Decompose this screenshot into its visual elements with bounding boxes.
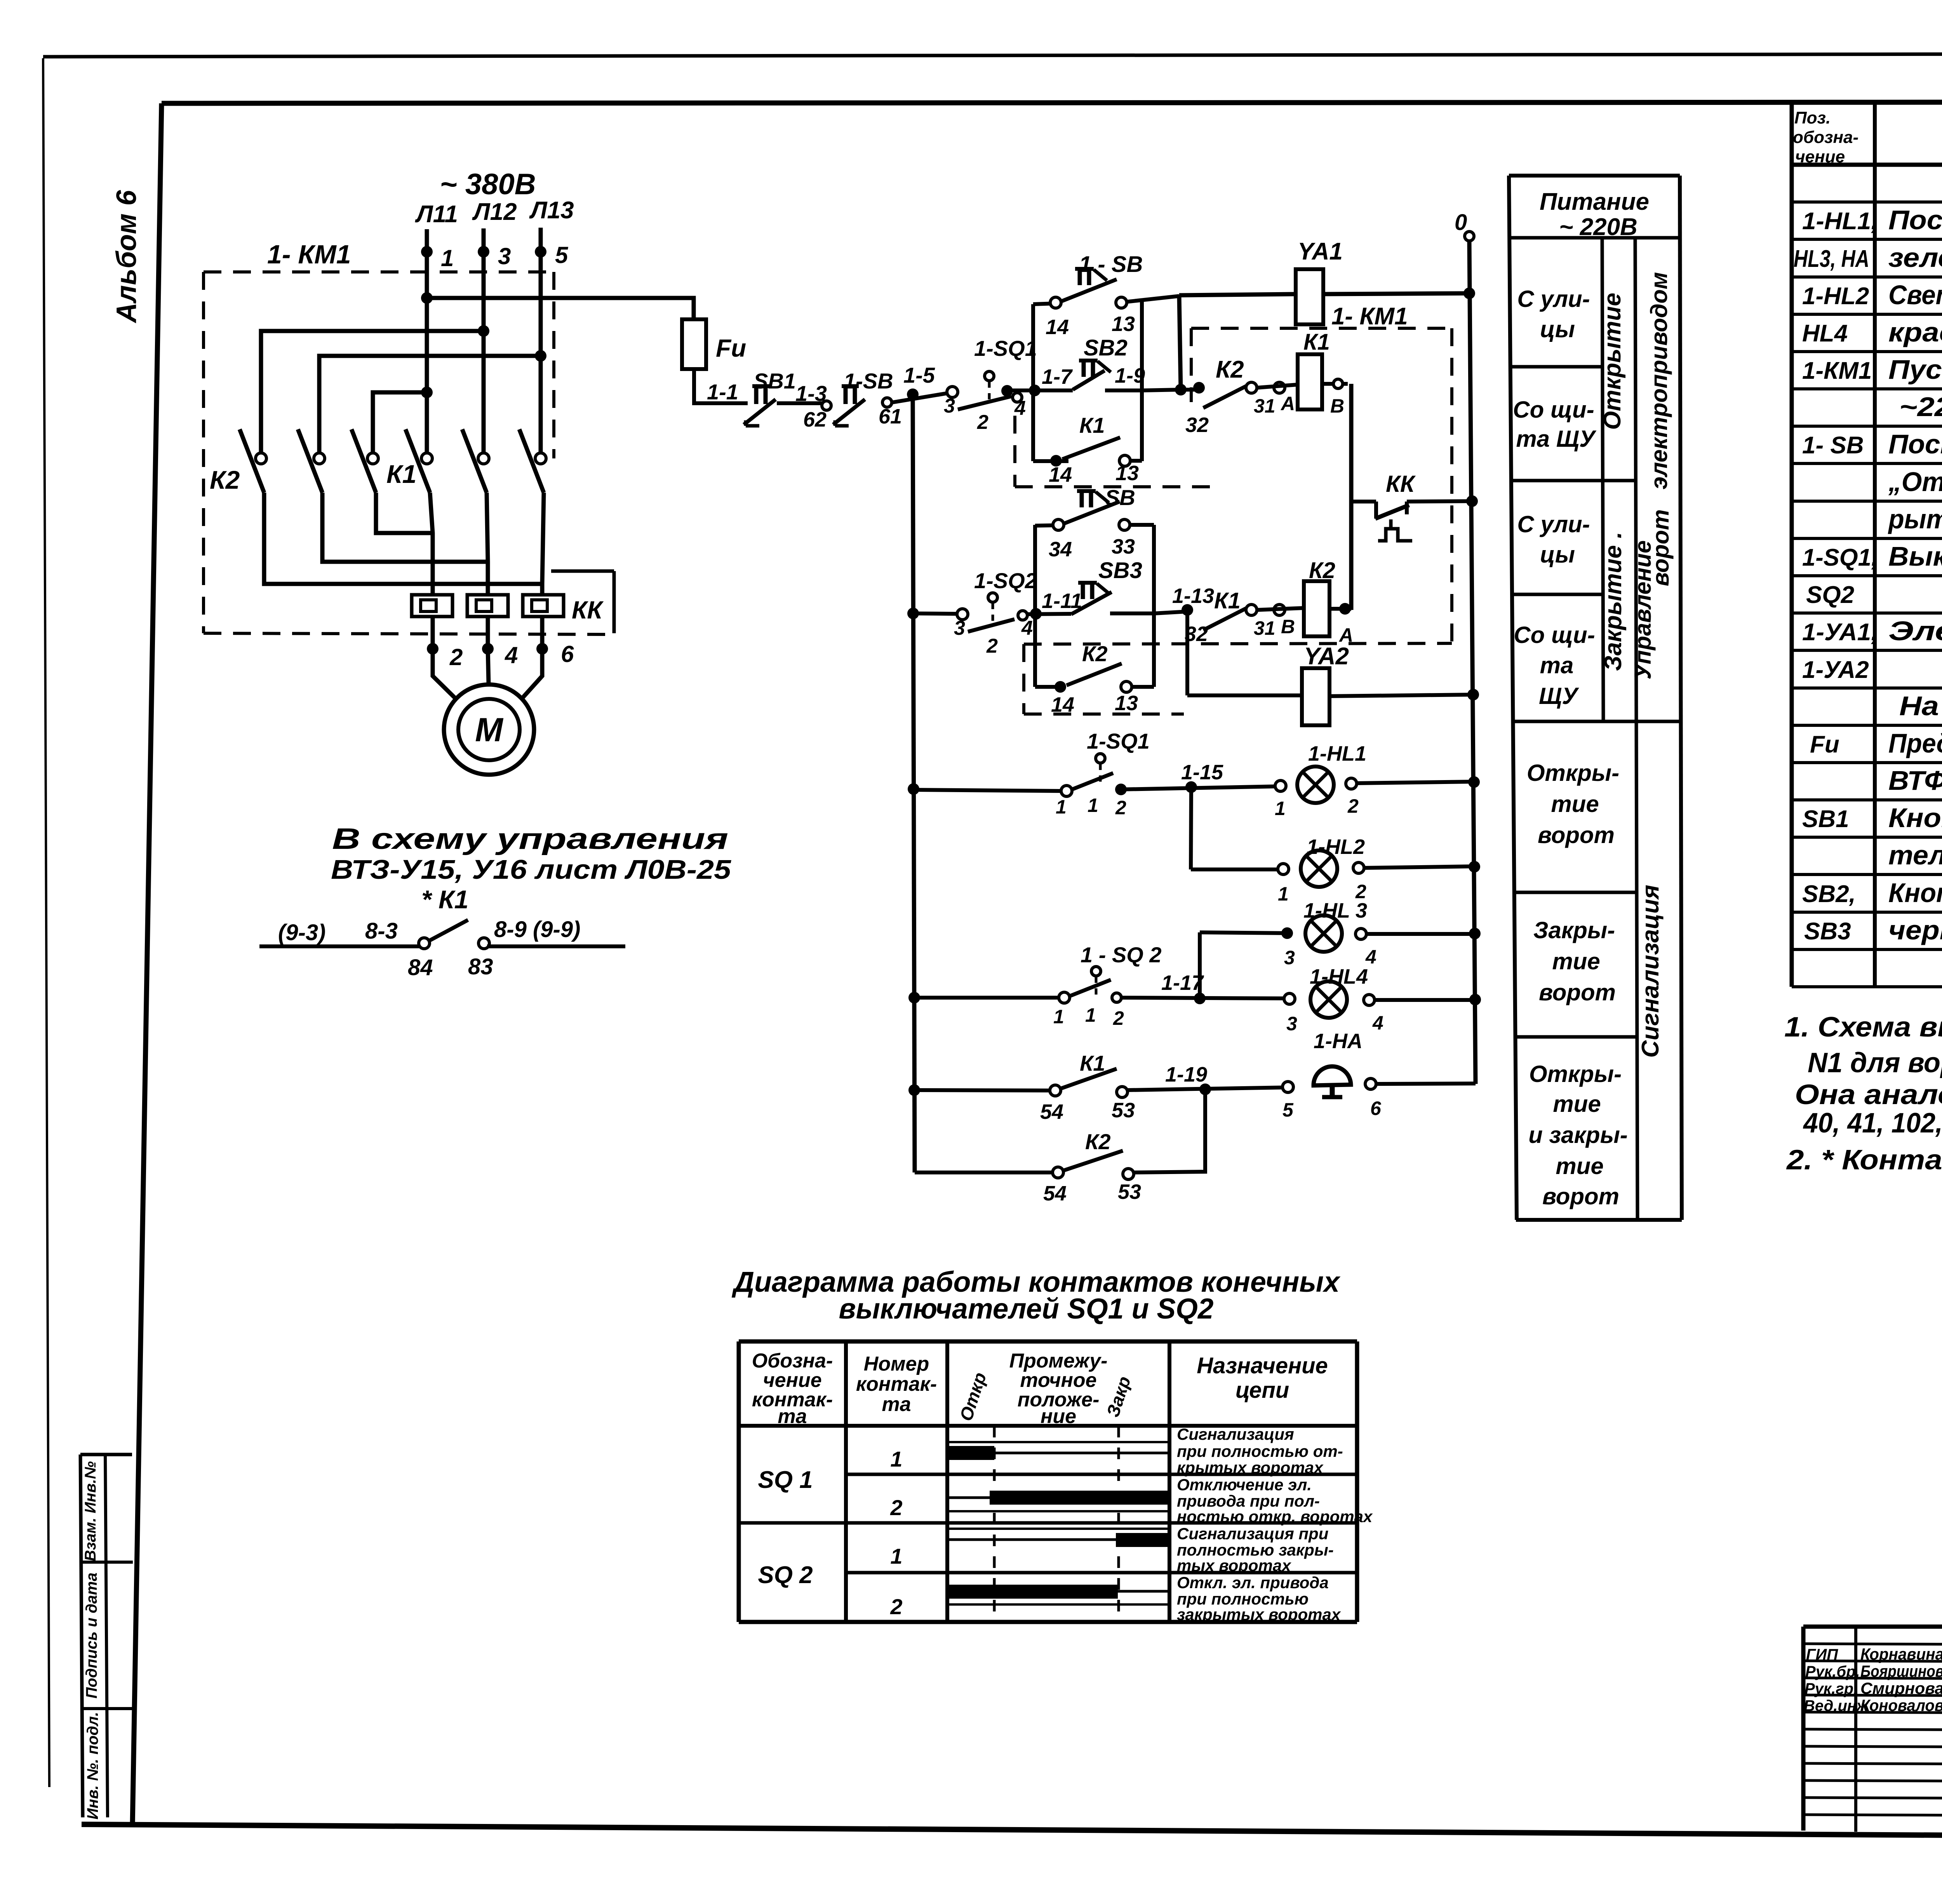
button SB chain contact lower: [1035, 485, 1154, 561]
label 1-KM1 control: [1331, 303, 1408, 330]
svg-text:Рук.гр.: Рук.гр.: [1805, 1680, 1858, 1697]
svg-text:Она аналогична с заменой и: Она аналогична с заменой индекса „ 1" на…: [1795, 1079, 1942, 1110]
relay contact K2 bottom row: [915, 1129, 1141, 1205]
svg-text:Отключение эл.: Отключение эл.: [1177, 1475, 1312, 1494]
wire phase L13: [535, 228, 546, 458]
svg-text:1-5: 1-5: [903, 363, 935, 387]
button 1-SB stop: [833, 369, 893, 426]
svg-text:С ули-: С ули-: [1517, 286, 1590, 312]
svg-text:1-НL1,: 1-НL1,: [1802, 208, 1878, 235]
svg-text:Л12: Л12: [472, 199, 517, 225]
svg-text:Поз.: Поз.: [1794, 108, 1831, 127]
legend rotated Upravlenie: [1630, 272, 1674, 679]
Album 6 rotated label: [111, 190, 142, 323]
fuse FU: [682, 319, 746, 369]
svg-text:Пост ПКЕ 222 - 3УЗ, N1-ц-4,1з+: Пост ПКЕ 222 - 3УЗ, N1-ц-4,1з+1р,: [1888, 429, 1942, 459]
svg-text:В схему управления: В схему управления: [332, 822, 728, 855]
SB post dashed enclosure upper: [1015, 416, 1213, 487]
svg-text:61: 61: [879, 405, 902, 428]
svg-text:33: 33: [1112, 535, 1135, 558]
svg-text:14: 14: [1046, 315, 1069, 339]
svg-text:13: 13: [1112, 312, 1135, 336]
svg-text:* К1: * К1: [421, 885, 468, 914]
svg-text:цы: цы: [1540, 542, 1575, 568]
wire K2-B output crosslink: [322, 493, 488, 562]
svg-text:Выключатель конечный ВПК: Выключатель конечный ВПК: [1888, 541, 1942, 571]
labels L11 L12 L13: [415, 197, 574, 228]
svg-text:цы: цы: [1540, 316, 1575, 342]
svg-text:(9-3): (9-3): [278, 920, 325, 945]
label 1-KM1 power: [267, 240, 351, 269]
thermal relay KK heater B: [467, 595, 508, 617]
wire SQ1 to SB2 block: [1007, 385, 1041, 396]
wire motor feed 2: [430, 493, 433, 649]
svg-text:Откры-: Откры-: [1529, 1061, 1622, 1087]
svg-text:2: 2: [977, 411, 988, 434]
svg-text:Пост сигнальный ПС-2, ~220В.: Пост сигнальный ПС-2, ~220В.: [1888, 205, 1942, 235]
svg-text:0: 0: [1455, 210, 1467, 235]
svg-text:1-SQ1: 1-SQ1: [1087, 729, 1150, 753]
svg-text:та: та: [1540, 652, 1574, 678]
wire to KK contact: [1351, 500, 1376, 503]
svg-text:SВ3: SВ3: [1804, 918, 1851, 945]
svg-text:1-7: 1-7: [1042, 365, 1073, 388]
wire K2-C output crosslink: [376, 493, 433, 533]
svg-text:1-УА1,: 1-УА1,: [1802, 619, 1878, 646]
electromagnet YA2: [1302, 643, 1349, 725]
svg-text:SQ2: SQ2: [1806, 582, 1854, 608]
svg-text:13: 13: [1115, 692, 1138, 715]
contact K2 pole A: [240, 429, 266, 493]
frame top line: [162, 102, 1942, 103]
svg-text:Корнавина: Корнавина: [1860, 1645, 1942, 1663]
lamp 1-HL2 row: [1191, 835, 1474, 905]
svg-text:ЩУ: ЩУ: [1539, 683, 1579, 709]
motor M: [444, 685, 534, 775]
wire node 1-15 down: [1191, 787, 1191, 869]
wire node up to coil bus: [1179, 295, 1181, 390]
svg-text:2: 2: [986, 635, 998, 657]
svg-text:53: 53: [1118, 1180, 1141, 1204]
svg-text:Сигнализация: Сигнализация: [1177, 1425, 1294, 1443]
svg-text:В: В: [1281, 616, 1295, 638]
svg-text:40, 41, 102, 103.: 40, 41, 102, 103.: [1803, 1108, 1942, 1139]
diagram purpose texts: [1177, 1425, 1373, 1624]
svg-text:ворот: ворот: [1538, 822, 1615, 848]
relay contact K1 bell row: [914, 1051, 1135, 1124]
svg-text:Л11: Л11: [415, 201, 458, 228]
svg-text:5: 5: [555, 242, 569, 268]
svg-text:3: 3: [1284, 947, 1295, 969]
limit switch contact 1-SQ1 main: [944, 336, 1037, 434]
title block staff grid: [1803, 1627, 1942, 1832]
legend cell S ulicy 1: [1517, 286, 1590, 342]
margin stamp boxes: [80, 1455, 133, 1817]
svg-text:SВ1: SВ1: [1802, 806, 1849, 833]
diagram bar SQ1 contact 1: [947, 1442, 1169, 1460]
svg-text:Со щи-: Со щи-: [1514, 622, 1595, 648]
wire K2-A output crosslink: [264, 493, 542, 584]
legend table frame: [1509, 176, 1682, 1220]
svg-text:N1 для ворот с электропри: N1 для ворот с электроприводами N2,3,39,…: [1808, 1047, 1942, 1078]
svg-text:1-УА2: 1-УА2: [1802, 657, 1869, 683]
svg-text:13: 13: [1115, 462, 1139, 485]
svg-text:1: 1: [441, 245, 454, 271]
svg-text:SВ1: SВ1: [753, 369, 796, 393]
wire SB1 to 1-SB: [777, 381, 827, 406]
label K2 power: [210, 465, 240, 494]
SB3 block left vertical: [1033, 525, 1037, 687]
svg-text:Смирнова: Смирнова: [1860, 1679, 1942, 1697]
svg-text:Взам. Инв.№: Взам. Инв.№: [82, 1461, 99, 1561]
wire control tap from L11: [427, 298, 694, 319]
svg-text:2. * Контакт в схему ВТЗ д: 2. * Контакт в схему ВТЗ для ворот стоян…: [1786, 1144, 1942, 1176]
svg-text:тых воротах: тых воротах: [1177, 1556, 1291, 1575]
contact K1 pole A: [405, 429, 432, 493]
motor terminals 2 4 6: [427, 641, 574, 670]
diagram title: [731, 1266, 1341, 1325]
svg-text:К2: К2: [1082, 641, 1108, 666]
svg-text:та: та: [882, 1393, 911, 1416]
node 0 top of right bus: [1455, 210, 1467, 235]
parts table frame: [1792, 104, 1942, 987]
svg-text:Пускатель магнитный ПМЛ: Пускатель магнитный ПМЛ: [1888, 354, 1942, 385]
right bus vertical: [1465, 232, 1481, 1084]
button SB3 close contact: [1027, 558, 1154, 620]
relay contact K1 interlock lower: [1185, 588, 1304, 646]
svg-text:1-НL2: 1-НL2: [1802, 283, 1869, 310]
SB post dashed enclosure lower: [1024, 644, 1184, 714]
legend cell S ulicy 2: [1517, 511, 1590, 568]
svg-text:ворот: ворот: [1648, 509, 1674, 586]
wire K2 coil to node A: [1329, 603, 1353, 646]
svg-text:Откл. эл. привода: Откл. эл. привода: [1177, 1573, 1329, 1592]
svg-text:тель красный, ТУ16-642, 015 -: тель красный, ТУ16-642, 015 - 84: [1888, 840, 1942, 870]
svg-text:выключателей SQ1 и SQ2: выключателей SQ1 и SQ2: [839, 1293, 1214, 1325]
svg-text:8-9 (9-9): 8-9 (9-9): [494, 917, 580, 942]
svg-text:Закрытие .: Закрытие .: [1600, 532, 1627, 671]
svg-text:Подпись и дата: Подпись и дата: [83, 1573, 100, 1698]
svg-text:32: 32: [1185, 413, 1209, 437]
wire node 1-13 down to YA2 row: [1185, 610, 1189, 695]
svg-text:красный, ТУ78 - 395 -76: красный, ТУ78 - 395 -76: [1888, 317, 1942, 347]
svg-text:Бояршинов: Бояршинов: [1860, 1662, 1942, 1680]
svg-text:и закры-: и закры-: [1528, 1122, 1628, 1148]
sheet left trim line: [43, 58, 49, 1787]
svg-text:рыть "; N 3 - ц-к, 1з +1р, „ С: рыть "; N 3 - ц-к, 1з +1р, „ Стоп": [1888, 504, 1942, 534]
legend rotated Signalizaciya: [1637, 885, 1664, 1057]
svg-text:2: 2: [890, 1594, 902, 1619]
title block outer frame: [1803, 1627, 1942, 1833]
contactor 1-KM1 dashed enclosure: [204, 272, 612, 634]
label K1 power: [386, 460, 416, 488]
svg-text:1: 1: [1275, 798, 1286, 819]
parts table rows text: [1794, 167, 1942, 945]
margin stamp labels: [82, 1461, 101, 1819]
legend cell Otkrytie vorot: [1527, 760, 1619, 848]
svg-text:1-SQ1: 1-SQ1: [974, 336, 1037, 361]
svg-text:контак-: контак-: [856, 1373, 937, 1395]
relay coil K1: [1298, 329, 1330, 409]
svg-text:1 - SВ: 1 - SВ: [1079, 252, 1143, 277]
svg-text:1-13: 1-13: [1172, 584, 1214, 608]
svg-text:К2: К2: [1309, 558, 1335, 583]
limit switch contact 1-SQ2 signal: [914, 942, 1162, 1029]
lamp 1-HL1: [1275, 742, 1474, 819]
svg-text:34: 34: [1049, 538, 1072, 561]
relay coil K2: [1304, 558, 1335, 636]
svg-text:К1: К1: [1214, 588, 1241, 613]
svg-text:крытых воротах: крытых воротах: [1177, 1458, 1324, 1477]
svg-text:НL3, НА: НL3, НА: [1794, 246, 1869, 272]
svg-text:1-1: 1-1: [707, 380, 738, 404]
svg-text:Fu: Fu: [716, 334, 746, 362]
svg-text:Коновалов: Коновалов: [1860, 1696, 1942, 1714]
svg-text:4: 4: [1021, 617, 1033, 639]
terminal labels 1 3 5: [441, 242, 569, 271]
bell 1-HA: [1282, 1030, 1476, 1121]
svg-text:3: 3: [944, 395, 955, 417]
label ~380V: [440, 168, 536, 201]
wire phase L12: [478, 228, 489, 458]
wire to SQ1: [892, 363, 950, 402]
svg-text:ворот: ворот: [1542, 1183, 1619, 1209]
svg-text:Кнопка КЕ011УЗ, исп.4, толкате: Кнопка КЕ011УЗ, исп.4, толкатель: [1888, 878, 1942, 908]
svg-text:1 - SQ 2: 1 - SQ 2: [1081, 942, 1162, 967]
svg-text:5: 5: [1282, 1099, 1294, 1121]
svg-text:1- SВ: 1- SВ: [1802, 432, 1864, 459]
relay contact K2 selfhold: [1035, 641, 1154, 716]
node 1-19: [1128, 1063, 1288, 1095]
diagram header text: [752, 1350, 1328, 1428]
svg-text:электроприводом: электроприводом: [1646, 272, 1672, 490]
svg-text:3: 3: [1286, 1013, 1297, 1035]
svg-text:1-15: 1-15: [1181, 761, 1223, 784]
svg-text:Л13: Л13: [529, 197, 574, 224]
frame bottom line: [82, 1824, 1942, 1839]
thermal relay KK heater C: [523, 595, 564, 617]
svg-text:54: 54: [1043, 1182, 1067, 1205]
KK enclosure corner: [551, 571, 614, 633]
legend rotated Zakrytie: [1600, 532, 1627, 671]
thermal contact KK control: [1375, 471, 1474, 541]
svg-text:SВ3: SВ3: [1098, 558, 1142, 583]
svg-text:1-SQ2: 1-SQ2: [974, 568, 1037, 593]
svg-text:ворот: ворот: [1539, 979, 1616, 1005]
svg-text:~ 380В: ~ 380В: [440, 168, 536, 201]
svg-text:Электромагнит: Электромагнит: [1888, 616, 1942, 646]
svg-text:ностью откр. воротах: ностью откр. воротах: [1177, 1507, 1373, 1526]
svg-text:К1: К1: [386, 460, 416, 488]
svg-text:Закры-: Закры-: [1533, 917, 1615, 943]
wire phase L11: [421, 229, 433, 458]
svg-text:К2: К2: [1216, 356, 1244, 383]
wire K2 pole A feed: [261, 331, 484, 458]
diagram bar SQ1 contact 2: [947, 1491, 1169, 1511]
button 1-SB chain contact top: [1033, 252, 1179, 339]
svg-text:SQ 1: SQ 1: [758, 1467, 813, 1493]
svg-text:1: 1: [1088, 794, 1098, 816]
limit switch contact 1-SQ1 signal: [913, 729, 1150, 819]
svg-text:1: 1: [890, 1447, 902, 1471]
svg-text:А: А: [1280, 393, 1295, 415]
legend cell So schita SchU 2: [1514, 622, 1595, 709]
wire motor feed 6: [542, 493, 544, 649]
wire K2 pole B feed: [319, 356, 541, 458]
limit switch contact 1-SQ2 main: [913, 568, 1037, 657]
wire SB3 block to node 1-13: [1154, 584, 1214, 616]
wire K2 row up to node 1-19: [1134, 1089, 1205, 1172]
svg-text:1-КМ1: 1-КМ1: [1802, 357, 1872, 384]
wire YA2 to right bus: [1329, 695, 1474, 696]
wire fuse to SB1: [694, 369, 748, 404]
node 1-17: [1121, 971, 1289, 1004]
svg-text:6: 6: [1370, 1097, 1382, 1119]
svg-text:На щуте управления ЩУ1: На щуте управления ЩУ1: [1899, 691, 1942, 721]
wire main row jog up: [1181, 382, 1205, 394]
svg-text:4: 4: [1372, 1012, 1383, 1034]
svg-text:К1: К1: [1080, 1051, 1105, 1075]
svg-text:ние: ние: [1041, 1405, 1076, 1428]
svg-text:Откры-: Откры-: [1527, 760, 1619, 786]
svg-text:КК: КК: [1386, 471, 1416, 497]
svg-text:31: 31: [1254, 395, 1276, 417]
svg-text:3: 3: [498, 243, 511, 269]
svg-text:черный, ТУ16 - 642 015 - 84: черный, ТУ16 - 642 015 - 84: [1888, 915, 1942, 945]
svg-text:Альбом 6: Альбом 6: [111, 190, 142, 323]
svg-text:2: 2: [1347, 795, 1359, 817]
wire K1 coil to node B: [1322, 379, 1348, 417]
contact K1 pole B: [462, 429, 489, 493]
svg-text:„Открыть"; N2 -ц-4, 1з +1р, „: „Открыть"; N2 -ц-4, 1з +1р, „ Зак-: [1888, 467, 1942, 497]
svg-text:закрытых воротах: закрытых воротах: [1177, 1605, 1341, 1624]
svg-text:1- КМ1: 1- КМ1: [1331, 303, 1408, 330]
svg-text:тие: тие: [1552, 948, 1600, 974]
svg-text:К1: К1: [1079, 413, 1105, 437]
svg-text:ВТФ6УЗ, ТУ16 - 521, 037 - 75: ВТФ6УЗ, ТУ16 - 521, 037 - 75: [1888, 765, 1942, 796]
svg-text:НL4: НL4: [1802, 320, 1848, 347]
button SB1 stop: [744, 369, 796, 426]
asterisk contact K1 note: [259, 885, 625, 980]
thermal relay KK heater A: [412, 595, 452, 617]
node 62: [803, 401, 831, 431]
lamp 1-HL4: [1284, 965, 1475, 1035]
legend rotated Otkrytie: [1599, 293, 1626, 430]
svg-text:SВ2,: SВ2,: [1802, 881, 1856, 908]
svg-text:1: 1: [1053, 1006, 1064, 1028]
svg-text:83: 83: [468, 954, 493, 979]
button SB2 open contact: [1033, 335, 1145, 390]
svg-text:К2: К2: [210, 465, 240, 494]
electromagnet YA1: [1296, 238, 1343, 324]
svg-text:Кнопка КЕ011УЗ, исп 5, толка-: Кнопка КЕ011УЗ, исп 5, толка-: [1888, 803, 1942, 833]
diagram bar SQ2 contact 2: [947, 1585, 1169, 1604]
legend cell So schita SchU 1: [1513, 397, 1597, 452]
SB2 block left vertical: [1031, 304, 1035, 461]
svg-text:SВ: SВ: [1105, 485, 1135, 510]
wire SB2 block to node: [1142, 384, 1187, 395]
svg-text:SВ2: SВ2: [1084, 335, 1128, 361]
svg-text:КК: КК: [572, 596, 604, 624]
svg-text:Вед.инж: Вед.инж: [1804, 1697, 1869, 1714]
wire node B down to K2 coil row: [1349, 384, 1354, 610]
coil feed bus to YA1: [1179, 294, 1296, 295]
svg-text:при полностью от-: при полностью от-: [1177, 1442, 1343, 1460]
legend cell Otkrytie i zakrytie vorot: [1528, 1061, 1628, 1209]
svg-text:2: 2: [1115, 797, 1126, 819]
KM1 dashed enclosure control: [1024, 328, 1452, 644]
svg-text:2: 2: [890, 1495, 902, 1520]
svg-text:ВТЗ-У15, У16 лист Л0В-25: ВТЗ-У15, У16 лист Л0В-25: [331, 854, 731, 885]
svg-text:84: 84: [408, 955, 433, 980]
svg-text:1: 1: [1278, 883, 1289, 905]
svg-text:Сигнализация при: Сигнализация при: [1177, 1524, 1328, 1543]
svg-text:Номер: Номер: [864, 1353, 929, 1375]
svg-text:3: 3: [954, 617, 965, 639]
contact K1 pole C: [519, 429, 546, 493]
svg-text:та ЩУ: та ЩУ: [1516, 426, 1597, 452]
svg-text:Fu: Fu: [1810, 731, 1839, 758]
svg-text:14: 14: [1051, 693, 1074, 716]
svg-text:14: 14: [1049, 463, 1072, 486]
svg-text:Питание: Питание: [1540, 188, 1649, 215]
svg-text:6: 6: [561, 641, 574, 667]
svg-text:Светофор СС-2У2,~220В, зеленый: Светофор СС-2У2,~220В, зеленый -: [1888, 280, 1942, 310]
svg-text:1-9: 1-9: [1115, 364, 1145, 387]
svg-text:Назначение: Назначение: [1197, 1353, 1328, 1378]
svg-text:тие: тие: [1556, 1153, 1603, 1179]
sheet top trim line: [43, 53, 1942, 57]
svg-text:31: 31: [1254, 617, 1276, 639]
svg-text:1-11: 1-11: [1042, 589, 1082, 613]
svg-text:С ули-: С ули-: [1517, 511, 1590, 537]
wire node 1-17 up: [1198, 932, 1202, 998]
label KK power: [572, 596, 604, 624]
diagram bar SQ2 contact 1: [947, 1529, 1169, 1547]
svg-text:4: 4: [1365, 946, 1376, 968]
svg-text:1-SQ1,: 1-SQ1,: [1802, 544, 1878, 571]
svg-text:1-НL 3: 1-НL 3: [1303, 899, 1367, 922]
wire to YA2: [1187, 693, 1302, 697]
svg-text:К2: К2: [1085, 1129, 1111, 1154]
diagram dashed position lines: [994, 1426, 1119, 1622]
legend cell Zakrytie vorot: [1533, 917, 1616, 1005]
svg-text:М: М: [475, 711, 504, 749]
svg-text:Инв. №. подл.: Инв. №. подл.: [84, 1712, 101, 1820]
svg-text:чение: чение: [1795, 147, 1845, 166]
svg-text:Рук.бр.: Рук.бр.: [1805, 1663, 1860, 1680]
svg-text:1-НL4: 1-НL4: [1310, 965, 1368, 988]
node 1-15: [1121, 761, 1281, 793]
svg-text:1: 1: [1085, 1004, 1096, 1026]
svg-text:К1: К1: [1303, 329, 1330, 355]
svg-text:зеленый - красный - звонок: зеленый - красный - звонок: [1888, 242, 1942, 273]
svg-text:53: 53: [1112, 1099, 1135, 1122]
contact K2 pole B: [298, 429, 325, 493]
svg-text:Открытие: Открытие: [1599, 293, 1626, 430]
SB3 block right vertical: [1152, 525, 1156, 687]
lamp 1-HL3 row: [1200, 899, 1475, 969]
svg-text:SQ 2: SQ 2: [758, 1562, 813, 1589]
svg-text:Со щи-: Со щи-: [1513, 397, 1594, 423]
svg-text:та: та: [778, 1405, 807, 1428]
svg-text:2: 2: [449, 644, 463, 670]
wire YA1 to right bus: [1323, 287, 1475, 299]
svg-text:~ 220В: ~ 220В: [1559, 214, 1637, 240]
svg-text:YA1: YA1: [1298, 238, 1343, 265]
title block staff labels: [1804, 1645, 1942, 1714]
svg-text:1-17: 1-17: [1161, 971, 1204, 995]
